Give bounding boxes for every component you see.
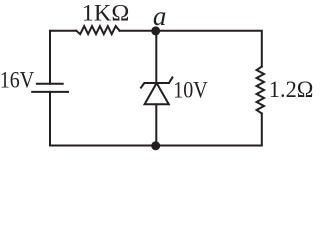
svg-text:a: a	[153, 1, 167, 31]
wire: node a down to zener cathode bar	[155, 31, 157, 83]
bottom junction dot	[151, 141, 160, 150]
battery V1 16V bottom plate (long)	[31, 91, 69, 93]
zener diode D1 cathode bar with bent ends	[141, 77, 172, 87]
svg-text:10V: 10V	[173, 78, 208, 103]
zener diode D1 anode triangle	[145, 83, 169, 104]
resistor R2 1.2Ω (vertical zigzag)	[257, 67, 264, 114]
node a junction dot	[151, 26, 160, 35]
wire: R1 through node a to top-right corner, down to resistor R2	[120, 31, 262, 67]
wire: zener anode down to bottom junction	[155, 104, 157, 146]
svg-text:1.2Ω: 1.2Ω	[269, 77, 314, 102]
svg-text:16V: 16V	[0, 67, 35, 92]
wire: battery + terminal up to top-left corner, right to resistor R1	[50, 31, 76, 84]
wire: R2 down to bottom-right corner, bottom run, up to battery - terminal	[50, 92, 262, 146]
resistor R1 1KΩ (horizontal zigzag)	[76, 26, 119, 34]
battery V1 16V top plate (short)	[36, 83, 64, 85]
svg-text:1KΩ: 1KΩ	[82, 1, 130, 26]
